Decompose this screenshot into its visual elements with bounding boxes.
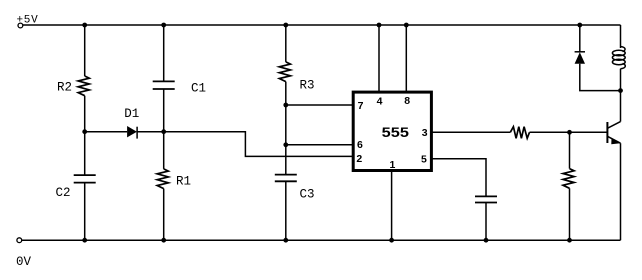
wire C1 top (rail down) bbox=[163, 25, 165, 81]
node +5V terminal bbox=[18, 23, 23, 28]
wire C2 top bbox=[84, 132, 86, 175]
svg-text:1: 1 bbox=[390, 159, 396, 171]
wire R1 bottom bbox=[163, 189, 165, 241]
wire R2 top (rail to resistor) bbox=[84, 25, 86, 76]
op-amp U1 555 IC box bbox=[353, 92, 431, 170]
wire pin6 node down to C3 bbox=[285, 145, 287, 175]
wire R3 top (rail down) bbox=[285, 25, 287, 62]
junction R3/pin7 bbox=[283, 103, 288, 108]
diode D1 bbox=[127, 126, 137, 137]
svg-text:0V: 0V bbox=[16, 255, 32, 269]
wire R1 top bbox=[163, 132, 165, 169]
wire R3 bottom to pin7 node bbox=[285, 82, 287, 105]
svg-text:555: 555 bbox=[382, 125, 410, 140]
junction bottom rail at C3 bbox=[283, 238, 288, 243]
junction top rail at R3 bbox=[283, 23, 288, 28]
junction bottom rail at C2 bbox=[82, 238, 87, 243]
junction base node bbox=[567, 130, 572, 135]
wire flyback diode bottom corner bbox=[580, 64, 621, 91]
transistor Q1 bbox=[607, 122, 620, 145]
svg-text:6: 6 bbox=[357, 139, 363, 151]
junction top rail at diode bbox=[577, 23, 582, 28]
wire pin 4 bbox=[378, 25, 380, 92]
wire C1 bottom bbox=[163, 89, 165, 132]
wire top rail bbox=[23, 24, 621, 26]
wire bypass cap bottom bbox=[485, 203, 487, 241]
resistor R3 bbox=[279, 62, 290, 82]
svg-text:R2: R2 bbox=[57, 81, 72, 95]
wire pin 7 bbox=[286, 104, 352, 106]
svg-text:R3: R3 bbox=[300, 79, 315, 93]
wire pin 5 bbox=[432, 159, 486, 197]
wire collector bbox=[620, 91, 622, 122]
svg-text:C2: C2 bbox=[56, 186, 71, 200]
wire D1 cathode bbox=[137, 131, 164, 133]
wire base pulldown bottom bbox=[569, 188, 571, 240]
junction pin6/C3 bbox=[283, 142, 288, 147]
wire bottom rail bbox=[22, 239, 621, 241]
wire C2 bottom bbox=[84, 183, 86, 241]
junction bottom rail at pin1 bbox=[389, 238, 394, 243]
capacitor C1 bbox=[153, 81, 175, 89]
wire base node to transistor bbox=[570, 131, 608, 133]
junction bottom rail at R1 bbox=[161, 238, 166, 243]
wire emitter down bbox=[620, 143, 622, 240]
junction coil/diode/collector bbox=[618, 88, 623, 93]
node 0V terminal bbox=[17, 238, 22, 243]
wire flyback diode top bbox=[579, 25, 581, 52]
svg-text:C3: C3 bbox=[300, 188, 315, 202]
resistor R2 bbox=[78, 76, 89, 96]
wire pin 1 bbox=[391, 171, 393, 240]
wire top rail corner to coil bbox=[620, 25, 622, 48]
wire R2 bottom to node bbox=[84, 96, 86, 132]
svg-text:D1: D1 bbox=[124, 107, 139, 121]
svg-text:2: 2 bbox=[356, 153, 362, 165]
wire node to pin2 (horizontal + corner) bbox=[164, 132, 352, 157]
wire pin 6 bbox=[286, 144, 352, 146]
resistor base pulldown bbox=[563, 169, 574, 189]
junction bottom rail at bypass cap bbox=[484, 238, 489, 243]
junction top rail at C1 bbox=[161, 23, 166, 28]
svg-text:4: 4 bbox=[377, 95, 383, 107]
svg-text:5: 5 bbox=[421, 154, 427, 166]
wire coil bottom to collector node bbox=[620, 69, 622, 91]
svg-text:8: 8 bbox=[404, 95, 410, 107]
svg-text:R1: R1 bbox=[176, 175, 191, 189]
junction R2/D1/C2 bbox=[82, 129, 87, 134]
junction bottom rail at pulldown bbox=[567, 238, 572, 243]
junction D1/C1/R1 bbox=[161, 129, 166, 134]
inductor relay coil bbox=[612, 47, 625, 69]
wire pin 8 bbox=[405, 25, 407, 92]
resistor base (horizontal) bbox=[510, 127, 529, 139]
capacitor pin5 bypass bbox=[475, 196, 497, 202]
capacitor C2 bbox=[74, 175, 96, 183]
wire R3 node down to pin6 node bbox=[285, 105, 287, 145]
resistor R1 bbox=[157, 169, 168, 189]
svg-text:3: 3 bbox=[422, 127, 428, 139]
junction top rail at pin4 bbox=[377, 23, 382, 28]
wire resistor to base node bbox=[530, 131, 570, 133]
junction top rail at pin8 bbox=[404, 23, 409, 28]
wire D1 anode bbox=[85, 131, 127, 133]
wire pin 3 to base resistor bbox=[432, 131, 510, 133]
junction top rail at R2 bbox=[82, 23, 87, 28]
svg-text:C1: C1 bbox=[191, 82, 206, 96]
capacitor C3 bbox=[275, 175, 297, 182]
diode flyback bbox=[575, 51, 585, 53]
wire C3 bottom bbox=[285, 181, 287, 240]
wire base pulldown top bbox=[569, 132, 571, 168]
svg-text:7: 7 bbox=[358, 100, 364, 112]
